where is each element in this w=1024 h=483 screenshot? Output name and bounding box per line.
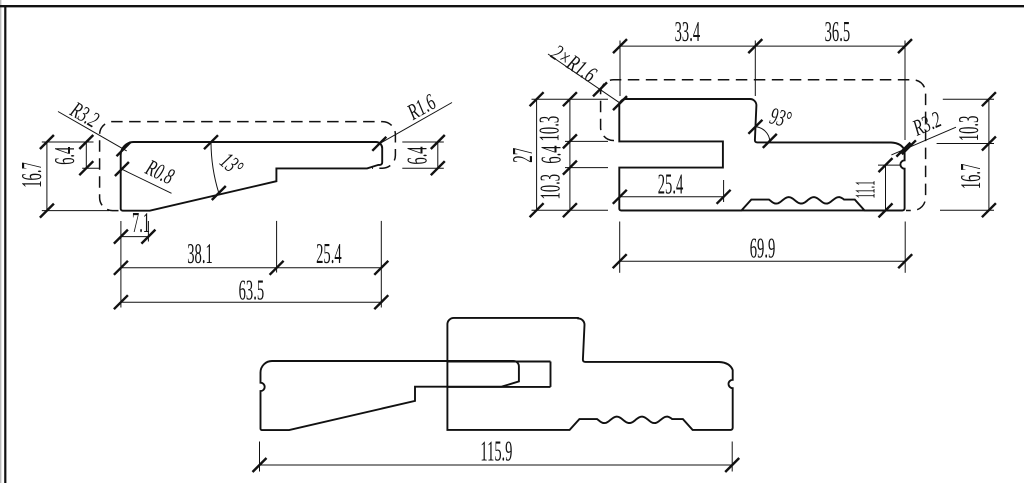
- fig1 angle dimension 13 deg: [204, 135, 226, 200]
- fig3 assembly board B (right, slot) outline: [447, 318, 732, 430]
- svg-text:10.3: 10.3: [535, 116, 566, 142]
- svg-text:2×R1.6: 2×R1.6: [547, 40, 601, 88]
- svg-text:36.5: 36.5: [825, 17, 851, 48]
- fig1 dimension 6.4 left: [79, 135, 100, 175]
- fig2 slot dimension 25.4: [613, 180, 731, 204]
- svg-text:10.3: 10.3: [536, 174, 567, 200]
- fig1 solid profile of board A machined end: [121, 142, 383, 211]
- fig1 dimension 7.1: [114, 221, 155, 308]
- fig2 bottom wavy edge: [621, 197, 903, 210]
- svg-text:R3.2: R3.2: [66, 97, 103, 133]
- svg-text:38.1: 38.1: [187, 239, 213, 270]
- fig2 leader 2xR1.6: [548, 54, 627, 110]
- svg-text:63.5: 63.5: [239, 275, 265, 306]
- fig3 assembly board A (left, slant tongue): [261, 361, 519, 430]
- fig2 left dimensions 27, 10.3, 6.4, 10.3: [530, 92, 608, 217]
- svg-text:33.4: 33.4: [675, 17, 701, 48]
- svg-text:115.9: 115.9: [480, 436, 512, 467]
- svg-text:7.1: 7.1: [132, 208, 150, 239]
- fig1 dimension 63.5: [114, 295, 388, 309]
- svg-text:16.7: 16.7: [17, 162, 48, 188]
- fig1 dashed blank outline: [100, 122, 396, 211]
- svg-text:6.4: 6.4: [402, 147, 433, 165]
- fig2 right dimensions 10.3 and 16.7: [937, 92, 996, 217]
- fig1 leader R0.8: [115, 162, 172, 193]
- svg-text:25.4: 25.4: [658, 169, 684, 200]
- fig2 dashed blank outline: [601, 80, 926, 211]
- svg-text:6.4: 6.4: [50, 147, 81, 165]
- svg-text:93°: 93°: [767, 103, 794, 133]
- svg-text:69.9: 69.9: [750, 234, 776, 265]
- fig2 leader R3.2: [891, 127, 956, 156]
- svg-text:13°: 13°: [215, 148, 248, 182]
- fig3 dimension 115.9: [253, 442, 740, 473]
- svg-text:16.7: 16.7: [956, 164, 987, 190]
- fig2 top dimensions 33.4 and 36.5: [613, 39, 912, 140]
- fig2 dimension 69.9: [613, 222, 913, 273]
- fig1 leader R1.6: [372, 103, 452, 151]
- fig1 dimension 16.7 left: [40, 135, 109, 218]
- frame left line: [4, 6, 6, 483]
- svg-text:25.4: 25.4: [316, 239, 342, 270]
- fig1 dimension 6.4 right: [402, 135, 445, 175]
- fig2 angle dimension 93 deg: [748, 120, 776, 148]
- page edge faint line: [0, 0, 2, 483]
- fig1 dimensions 38.1 and 25.4: [114, 221, 388, 308]
- svg-text:10.3: 10.3: [954, 116, 985, 142]
- fig2 solid profile of board B machined end: [619, 99, 904, 210]
- svg-text:6.4: 6.4: [536, 146, 567, 164]
- fig1 leader R3.2: [58, 112, 131, 157]
- fig3 slot cavity lines: [447, 362, 550, 387]
- svg-text:27: 27: [508, 148, 539, 163]
- frame top line: [0, 5, 1024, 7]
- svg-text:R1.6: R1.6: [403, 89, 441, 125]
- svg-text:R0.8: R0.8: [141, 154, 178, 189]
- fig2 dimension 11.1: [878, 158, 900, 217]
- svg-text:11.1: 11.1: [851, 181, 882, 199]
- svg-text:R3.2: R3.2: [909, 107, 945, 141]
